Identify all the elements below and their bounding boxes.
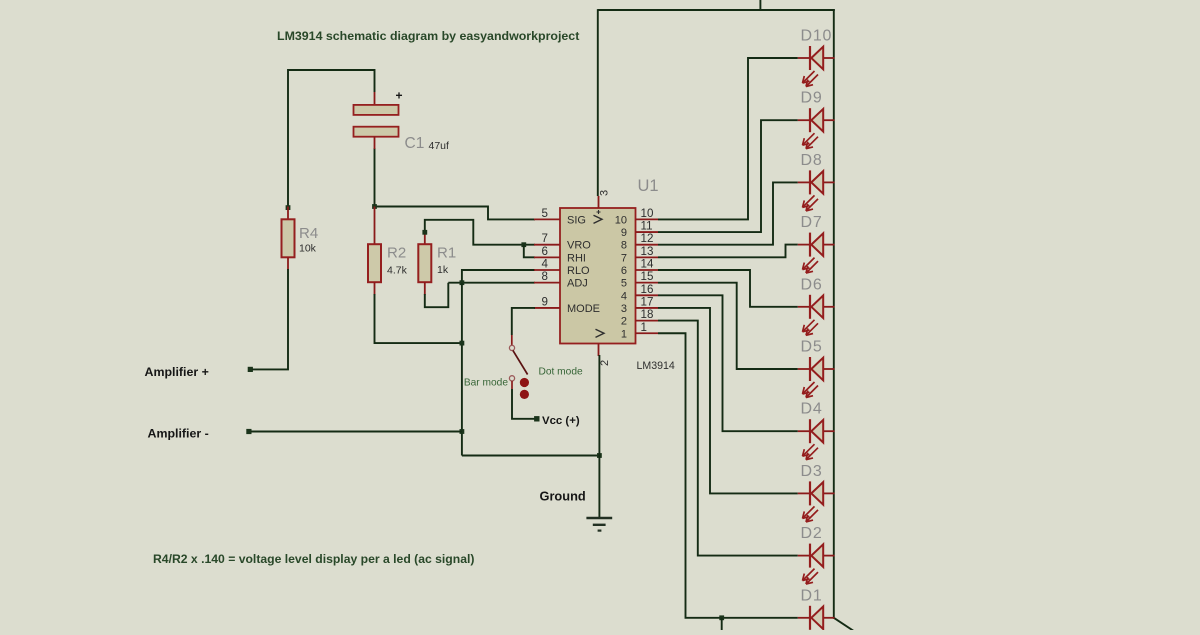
wire U1 pin 18 to D2 <box>658 321 798 556</box>
pin 16 LED4 <box>636 294 659 296</box>
svg-text:13: 13 <box>641 245 654 258</box>
svg-text:C1: C1 <box>405 135 425 152</box>
svg-text:R2: R2 <box>387 245 406 262</box>
switch SW1 common pin <box>511 335 513 345</box>
wire U1 pin 1 to D1 <box>658 333 798 618</box>
terminal Amplifier - <box>246 429 251 434</box>
analog marker at bottom <box>596 329 605 337</box>
svg-text:9: 9 <box>542 295 548 308</box>
svg-text:LM3914: LM3914 <box>637 360 675 372</box>
analog marker at SIG <box>594 215 603 223</box>
svg-text:RLO: RLO <box>567 265 590 277</box>
svg-text:7: 7 <box>542 232 548 245</box>
svg-text:Dot mode: Dot mode <box>539 366 584 377</box>
wire R1 top to VRO/RHI <box>425 220 535 245</box>
capacitor C1 <box>374 92 376 105</box>
wire U1 pin 16 to D4 <box>658 295 798 431</box>
svg-text:18: 18 <box>641 308 654 321</box>
svg-text:RHI: RHI <box>567 252 586 264</box>
resistor R4 <box>287 207 289 220</box>
svg-text:2: 2 <box>621 316 627 328</box>
svg-text:Amplifier +: Amplifier + <box>145 365 209 379</box>
svg-text:+: + <box>396 89 403 103</box>
wire C1 bottom to junction <box>374 148 376 207</box>
switch lever <box>513 350 528 374</box>
node C1/R2/SIG junction <box>372 204 377 209</box>
pin 14 LED6 <box>636 269 659 271</box>
terminal Amplifier + <box>248 367 253 372</box>
wire top left horizontal R4 to C1 <box>288 70 375 207</box>
wire U1 pin 13 to D7 <box>658 245 798 258</box>
svg-text:D3: D3 <box>801 463 823 480</box>
resistor R1 <box>424 232 426 244</box>
node pin2/ground junction <box>597 453 602 458</box>
svg-text:Amplifier -: Amplifier - <box>148 427 209 441</box>
node RLO/ADJ junction <box>460 280 465 285</box>
svg-text:R4: R4 <box>299 225 318 242</box>
svg-text:14: 14 <box>641 258 654 271</box>
svg-text:Bar mode: Bar mode <box>464 378 509 389</box>
wire ground net long vertical <box>461 283 463 456</box>
node on R4 top pin <box>286 205 291 210</box>
wire RLO pin down to ADJ net <box>462 270 535 283</box>
wire V+ down to U1 pin 3 <box>597 9 599 196</box>
svg-text:6: 6 <box>542 245 548 258</box>
wire amplifier+ to R4 bottom <box>252 269 288 369</box>
LED D7 <box>798 233 835 274</box>
pin number 3 (rotated) <box>599 190 611 196</box>
svg-text:1k: 1k <box>437 264 449 276</box>
wire U1 pin2 down to ground <box>598 355 600 517</box>
wire amplifier- to ground net <box>251 431 462 433</box>
wire R2 bottom to ground net <box>375 294 462 343</box>
wire U1 pin 12 to D8 <box>658 182 798 244</box>
wire U1 pin 15 to D5 <box>658 283 798 369</box>
pin 13 LED7 <box>636 256 659 258</box>
node R2 joins ground net <box>460 341 465 346</box>
wire U1 pin 10 to D10 <box>658 58 798 219</box>
switch contact dot lower <box>520 390 529 399</box>
svg-text:R4/R2 x .140 = voltage level d: R4/R2 x .140 = voltage level display per… <box>153 552 474 566</box>
svg-text:6: 6 <box>621 265 627 277</box>
svg-text:10: 10 <box>641 207 654 220</box>
wire U1 pin 11 to D9 <box>658 120 798 232</box>
wire ground net horizontal to U1 pin 2 <box>462 455 600 457</box>
svg-text:5: 5 <box>621 278 627 290</box>
wire bar contact to Vcc <box>511 381 513 389</box>
pin 4 RLO <box>534 269 560 271</box>
svg-text:10: 10 <box>615 214 627 226</box>
svg-text:D1: D1 <box>801 587 823 604</box>
svg-text:SIG: SIG <box>567 214 586 226</box>
wire LED anode bus <box>833 9 835 619</box>
pin 18 LED2 <box>636 320 659 322</box>
svg-text:D8: D8 <box>801 152 823 169</box>
wire junction to SIG pin 5 <box>375 207 536 220</box>
svg-text:LM3914 schematic diagram by ea: LM3914 schematic diagram by easyandworkp… <box>277 29 579 43</box>
svg-text:ADJ: ADJ <box>567 278 588 290</box>
pin 11 LED9 <box>636 231 659 233</box>
svg-text:1: 1 <box>621 328 627 340</box>
pin 17 LED3 <box>636 307 659 309</box>
svg-text:1: 1 <box>641 321 647 334</box>
node amplifier- joins ground net <box>460 429 465 434</box>
svg-text:16: 16 <box>641 283 654 296</box>
svg-text:4: 4 <box>542 258 549 271</box>
svg-text:D7: D7 <box>801 214 823 231</box>
wire VRO junction down to RHI pin <box>524 245 535 258</box>
pin 3 V+ top <box>598 196 600 208</box>
wire stub to bottom edge <box>721 618 723 631</box>
wire U1 pin 17 to D3 <box>658 308 798 493</box>
wire U1 pin 14 to D6 <box>658 270 798 307</box>
LED D2 <box>798 544 835 585</box>
pin 7 VRO <box>534 244 560 246</box>
svg-text:D2: D2 <box>801 525 823 542</box>
node D1 wire junction <box>719 615 724 620</box>
svg-text:2: 2 <box>599 360 611 366</box>
svg-text:11: 11 <box>641 220 653 233</box>
svg-text:D9: D9 <box>801 90 823 107</box>
LED D10 <box>798 46 835 87</box>
svg-text:17: 17 <box>641 295 654 308</box>
svg-text:D5: D5 <box>801 339 823 356</box>
LED D4 <box>798 419 835 460</box>
svg-text:U1: U1 <box>638 177 659 195</box>
wire bus diagonal to bottom edge <box>834 618 855 632</box>
switch bar-mode contact <box>509 376 514 381</box>
svg-text:15: 15 <box>641 270 654 283</box>
wire R1 bottom to ADJ net <box>425 283 449 308</box>
pin 5 SIG <box>534 218 560 220</box>
LED D1 <box>798 606 835 635</box>
pin 12 LED8 <box>636 244 659 246</box>
svg-text:D10: D10 <box>801 28 833 45</box>
resistor R2 <box>374 207 376 245</box>
svg-text:12: 12 <box>641 232 654 245</box>
svg-text:R1: R1 <box>437 245 456 262</box>
LED D8 <box>798 170 835 211</box>
pin number 2 (rotated) <box>599 360 611 366</box>
pin 15 LED5 <box>636 282 659 284</box>
pin 6 RHI <box>534 256 560 258</box>
pin 8 ADJ <box>534 282 560 284</box>
svg-text:Vcc (+): Vcc (+) <box>542 415 580 427</box>
LED D3 <box>798 481 835 522</box>
wire ADJ horizontal <box>448 282 535 284</box>
switch contact dot upper <box>520 378 529 387</box>
node VRO/RHI junction <box>521 242 526 247</box>
pin 10 LED10 <box>636 218 659 220</box>
svg-text:D4: D4 <box>801 401 823 418</box>
pin 1 LED1 <box>636 332 659 334</box>
svg-text:4.7k: 4.7k <box>387 265 408 277</box>
pin 2 V- bottom <box>598 344 600 357</box>
svg-text:8: 8 <box>542 270 548 283</box>
wire V+ from top edge <box>759 0 761 11</box>
wire MODE pin to switch <box>512 308 535 335</box>
svg-text:3: 3 <box>621 303 627 315</box>
svg-text:4: 4 <box>621 290 627 302</box>
svg-text:3: 3 <box>599 190 611 196</box>
svg-text:D6: D6 <box>801 276 823 293</box>
terminal Vcc <box>534 416 539 421</box>
svg-text:5: 5 <box>542 207 548 220</box>
LED D5 <box>798 357 835 398</box>
svg-text:7: 7 <box>621 252 627 264</box>
LED D6 <box>798 295 835 336</box>
svg-text:10k: 10k <box>299 243 317 255</box>
LED D9 <box>798 108 835 149</box>
svg-text:VRO: VRO <box>567 240 591 252</box>
wire V+ top horizontal <box>598 9 835 11</box>
svg-text:9: 9 <box>621 227 627 239</box>
op-amp U1 LM3914 body <box>560 208 636 344</box>
svg-text:8: 8 <box>621 240 627 252</box>
svg-text:47uf: 47uf <box>429 140 450 152</box>
node on R1 top pin <box>422 230 427 235</box>
svg-text:Ground: Ground <box>540 489 586 504</box>
pin 9 MODE <box>534 307 560 309</box>
ground symbol <box>586 517 612 520</box>
svg-text:MODE: MODE <box>567 303 600 315</box>
